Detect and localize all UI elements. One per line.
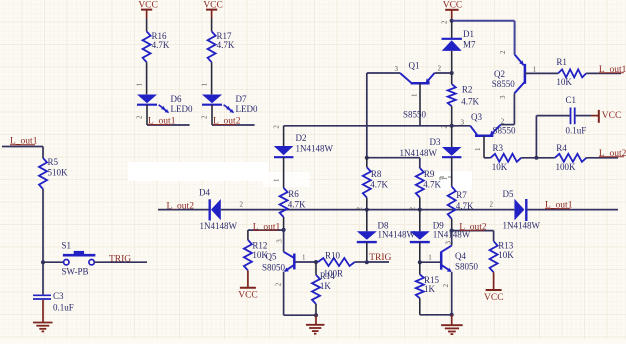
- svg-text:VCC: VCC: [484, 293, 504, 303]
- svg-text:2: 2: [355, 207, 363, 211]
- svg-text:1N4148W: 1N4148W: [378, 229, 416, 239]
- svg-text:S8550: S8550: [403, 109, 427, 119]
- svg-text:LED0: LED0: [171, 104, 193, 114]
- svg-text:1N4148W: 1N4148W: [296, 144, 334, 154]
- svg-text:C3: C3: [53, 291, 64, 301]
- svg-text:R10: R10: [325, 250, 341, 260]
- svg-text:4.7K: 4.7K: [152, 40, 170, 50]
- svg-text:510K: 510K: [48, 167, 69, 177]
- svg-text:2: 2: [240, 200, 244, 208]
- svg-text:S1: S1: [62, 241, 72, 251]
- svg-text:R8: R8: [371, 169, 382, 179]
- svg-text:S8550: S8550: [492, 79, 516, 89]
- svg-text:D2: D2: [296, 133, 307, 143]
- svg-text:S8550: S8550: [493, 126, 517, 136]
- svg-text:1: 1: [272, 178, 280, 182]
- svg-text:3: 3: [395, 65, 399, 73]
- svg-text:1: 1: [474, 147, 482, 151]
- svg-text:M7: M7: [463, 40, 476, 50]
- svg-text:VCC: VCC: [238, 291, 258, 301]
- svg-text:S8050: S8050: [455, 261, 479, 271]
- svg-text:100K: 100K: [556, 162, 577, 172]
- svg-text:TRIG: TRIG: [369, 253, 391, 263]
- svg-text:1: 1: [441, 177, 449, 181]
- svg-text:1N4148W: 1N4148W: [400, 148, 438, 158]
- svg-text:TRIG: TRIG: [109, 254, 131, 264]
- svg-text:D3: D3: [430, 137, 441, 147]
- svg-text:R14: R14: [320, 271, 336, 281]
- svg-text:1: 1: [200, 83, 208, 87]
- svg-text:3: 3: [499, 95, 507, 99]
- svg-text:R6: R6: [288, 189, 299, 199]
- svg-text:1: 1: [533, 65, 537, 73]
- svg-text:4.7K: 4.7K: [217, 40, 235, 50]
- svg-text:4.7K: 4.7K: [370, 180, 388, 190]
- svg-text:0.1uF: 0.1uF: [566, 126, 587, 136]
- svg-text:10K: 10K: [492, 162, 508, 172]
- svg-text:2: 2: [441, 20, 449, 24]
- svg-text:2: 2: [438, 64, 442, 72]
- svg-text:1: 1: [428, 254, 432, 262]
- svg-text:R5: R5: [48, 157, 59, 167]
- svg-text:R1: R1: [556, 57, 567, 67]
- svg-text:SW-PB: SW-PB: [62, 267, 89, 277]
- svg-text:1N4148W: 1N4148W: [200, 221, 238, 231]
- svg-text:D7: D7: [236, 94, 247, 104]
- svg-text:Q1: Q1: [409, 60, 420, 70]
- svg-text:D1: D1: [463, 29, 474, 39]
- svg-text:4.7K: 4.7K: [456, 201, 474, 211]
- svg-text:VCC: VCC: [602, 111, 622, 121]
- svg-text:Q4: Q4: [455, 251, 466, 261]
- svg-text:D6: D6: [171, 94, 182, 104]
- svg-text:3: 3: [276, 239, 284, 243]
- svg-text:R3: R3: [493, 143, 504, 153]
- svg-text:3: 3: [461, 119, 465, 127]
- svg-text:4.7K: 4.7K: [288, 199, 306, 209]
- svg-text:2: 2: [501, 118, 505, 126]
- svg-text:0.1uF: 0.1uF: [53, 302, 74, 312]
- svg-text:3: 3: [444, 241, 452, 245]
- svg-text:4.7K: 4.7K: [461, 96, 479, 106]
- svg-text:D5: D5: [503, 189, 514, 199]
- svg-text:R2: R2: [462, 84, 473, 94]
- svg-text:C1: C1: [566, 95, 577, 105]
- svg-text:1K: 1K: [424, 284, 436, 294]
- svg-text:4.7K: 4.7K: [423, 180, 441, 190]
- svg-text:R7: R7: [456, 190, 467, 200]
- svg-text:2: 2: [442, 283, 450, 287]
- svg-text:S8050: S8050: [262, 262, 286, 272]
- svg-text:10K: 10K: [556, 77, 572, 87]
- svg-text:1: 1: [302, 253, 306, 261]
- svg-text:10K: 10K: [252, 250, 268, 260]
- svg-text:2: 2: [490, 201, 494, 209]
- svg-text:L_out2: L_out2: [167, 202, 195, 212]
- svg-text:2: 2: [408, 207, 416, 211]
- svg-text:L_out1: L_out1: [253, 222, 281, 232]
- svg-text:1K: 1K: [320, 281, 332, 291]
- svg-text:2: 2: [135, 115, 143, 119]
- svg-text:Q3: Q3: [471, 112, 482, 122]
- svg-text:2: 2: [275, 282, 283, 286]
- svg-text:R9: R9: [424, 169, 435, 179]
- svg-text:10K: 10K: [498, 250, 514, 260]
- svg-text:1: 1: [135, 83, 143, 87]
- svg-text:1: 1: [411, 93, 419, 97]
- svg-text:R4: R4: [556, 143, 567, 153]
- svg-text:D4: D4: [199, 187, 210, 197]
- svg-text:2: 2: [272, 125, 280, 129]
- svg-text:2: 2: [499, 50, 507, 54]
- svg-text:2: 2: [200, 115, 208, 119]
- svg-text:1N4148W: 1N4148W: [503, 221, 541, 231]
- svg-text:LED0: LED0: [236, 104, 258, 114]
- svg-text:Q2: Q2: [494, 69, 505, 79]
